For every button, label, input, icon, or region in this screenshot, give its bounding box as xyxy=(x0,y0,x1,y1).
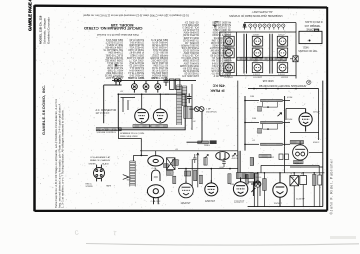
wire down from coil xyxy=(187,112,203,143)
cathode resistor bars under output tubes xyxy=(133,125,150,128)
resistor R7 with AVC loop at y=144.3 xyxy=(245,143,259,145)
terminal blocks upper xyxy=(170,79,175,89)
wire AC line down xyxy=(103,85,105,123)
PSU left rail xyxy=(253,173,255,207)
tube socket LAMP (layout view) xyxy=(252,63,262,73)
svg-text:10M: 10M xyxy=(250,96,254,98)
svg-text:MOD 11B: MOD 11B xyxy=(262,79,273,82)
B+ top line of PSU xyxy=(254,172,324,174)
speaker plug coil xyxy=(189,107,204,112)
svg-text:80-288 -.02 3: 80-288 -.02 3 xyxy=(153,51,168,54)
tube socket 50L6GT (layout view) xyxy=(224,48,234,58)
svg-text:1MEG: 1MEG xyxy=(255,177,261,179)
svg-text:10-2715 ELECT: 10-2715 ELECT xyxy=(105,41,123,44)
tube V4 12SQ7 first audio xyxy=(299,109,312,132)
output transformer T3 winding xyxy=(177,85,182,125)
svg-text:.05 .0001 23-: .05 .0001 23- xyxy=(184,21,199,24)
bias resistor vertical xyxy=(245,175,248,185)
svg-text:DIAL DRIVE: DIAL DRIVE xyxy=(306,28,319,31)
svg-text:12SQ7: 12SQ7 xyxy=(313,112,321,114)
svg-text:IF 456 KC ALIGN: IF 456 KC ALIGN xyxy=(305,20,323,23)
B- bottom bus xyxy=(248,206,323,208)
coupling network V3 xyxy=(241,177,260,196)
cathode resistor R2 xyxy=(173,176,176,183)
svg-text:250M: 250M xyxy=(287,119,292,121)
svg-text:PAPER 40-9395: PAPER 40-9395 xyxy=(150,56,168,59)
padder capacitor xyxy=(164,164,169,168)
tube V5 50L6GT output xyxy=(293,141,308,160)
parts list table, right block (rotated 180 small text) xyxy=(180,21,231,78)
schematic sheet border frame xyxy=(34,5,327,211)
tube V3 12SQ7GT detector-AVC xyxy=(233,179,247,196)
svg-text:UNDERSIDE VIEW FROM REAR OF CH: UNDERSIDE VIEW FROM REAR OF CHASSIS xyxy=(229,14,283,17)
svg-text:35Z5GT: 35Z5GT xyxy=(253,46,261,48)
svg-text:150 WVDC: 150 WVDC xyxy=(206,111,217,113)
tuning arrow xyxy=(278,113,282,117)
rectifier V6 35Z5GT xyxy=(273,173,287,207)
svg-text:456KC: 456KC xyxy=(313,142,320,144)
output tube V6 50L6GT xyxy=(153,109,167,123)
svg-text:1, X-1 at rectifiers, a-v-c ?: 1, X-1 at rectifiers, a-v-c ? Tuning ind… xyxy=(61,109,65,208)
wires around V4/V5 xyxy=(286,109,323,153)
svg-text:SHORTWAVE TRIM WITH KNOB POINT: SHORTWAVE TRIM WITH KNOB POINTER xyxy=(259,84,306,87)
svg-text:35Z5 MFD CARB: 35Z5 MFD CARB xyxy=(180,64,199,67)
IF transformer T2 leads xyxy=(238,151,240,173)
on-off switch resistor bar xyxy=(96,128,121,131)
svg-text:80-1704 79-34: 80-1704 79-34 xyxy=(151,66,168,69)
svg-text:RED &: RED & xyxy=(86,183,93,185)
output tube cathode bar xyxy=(294,161,304,164)
resistor R6 with AVC loop at y=122.5 xyxy=(245,122,259,124)
svg-text:ALL PARTS ASSY: ALL PARTS ASSY xyxy=(252,10,273,13)
svg-text:50L6GT: 50L6GT xyxy=(280,76,288,78)
filter electrolytic C15 xyxy=(290,176,299,186)
svg-text:150V 50M 50M: 150V 50M 50M xyxy=(106,71,123,74)
resistor R12 horizontal xyxy=(198,141,209,144)
screen resistor R3 xyxy=(185,171,191,176)
tube V1 12SA7GT converter (next to gang) xyxy=(179,181,194,198)
cathode resistor R5 xyxy=(199,175,202,183)
svg-text:37-5614 58-1: 37-5614 58-1 xyxy=(129,41,144,44)
svg-text:Gamblers,/Coronado: Gamblers,/Coronado xyxy=(46,17,50,44)
svg-text:Parts and values given R.C.A.: Parts and values given R.C.A. licensed xyxy=(97,33,139,36)
svg-text:12SQ7GT: 12SQ7GT xyxy=(234,201,245,203)
svg-text:100M 470M 400: 100M 470M 400 xyxy=(105,46,123,49)
AVC filter resistor vertical xyxy=(255,174,258,184)
AVC rail vertical xyxy=(244,96,246,151)
svg-text:85-9175 38-2: 85-9175 38-2 xyxy=(129,61,144,64)
tone switch box xyxy=(290,56,298,62)
cathode resistor R7 xyxy=(228,174,231,184)
stem E1 to plate wire xyxy=(155,151,157,156)
svg-text:STRIPE: STRIPE xyxy=(86,186,94,188)
svg-text:WVDC 12-1932: WVDC 12-1932 xyxy=(126,56,144,59)
svg-text:27-8448 50M .: 27-8448 50M . xyxy=(107,51,123,54)
svg-text:TAPE: TAPE xyxy=(106,185,112,188)
capacitor C20 line filter xyxy=(164,77,169,86)
scan artifact: right lower smudge xyxy=(330,236,356,239)
grid bus wire xyxy=(178,168,238,170)
svg-text:20-20 MF: 20-20 MF xyxy=(296,199,305,201)
junction dots on grid bus xyxy=(185,168,187,170)
tube base / plug diagram xyxy=(94,165,105,182)
grid resistor R6 xyxy=(204,158,207,166)
svg-text:IF PEAK: IF PEAK xyxy=(210,88,225,92)
filter choke winding xyxy=(182,86,187,106)
svg-text:50M: 50M xyxy=(252,118,256,120)
plate wire upper xyxy=(140,150,238,152)
wire amp box to gang bus xyxy=(119,128,142,156)
scan artifact: bottom page-edge line xyxy=(86,244,359,246)
pilot lamp PSU xyxy=(255,173,261,207)
surge resistor R14 vertical xyxy=(263,179,267,191)
inner right rail xyxy=(318,89,320,140)
output section right rail xyxy=(191,84,193,130)
svg-text:12SA7: 12SA7 xyxy=(225,33,232,36)
svg-text:1/2W 200V 470: 1/2W 200V 470 xyxy=(182,74,199,77)
tube stems xyxy=(186,169,241,184)
svg-text:©John F. Rider, Publisher: ©John F. Rider, Publisher xyxy=(329,158,333,214)
svg-text:12SA7GT: 12SA7GT xyxy=(181,202,192,205)
pilot lamp L2 xyxy=(143,81,149,93)
B+ distribution wire xyxy=(248,88,319,90)
tuning gang section C1B xyxy=(147,185,164,198)
svg-text:20M: 20M xyxy=(230,184,234,186)
svg-text:46-3550 1/2W 20: 46-3550 1/2W 20 xyxy=(212,21,231,24)
right boundary rail xyxy=(322,81,324,207)
tube socket 12SK7 (layout view) xyxy=(277,48,287,58)
junction dots PSU xyxy=(257,172,259,174)
svg-text:25M: 25M xyxy=(165,94,169,96)
chassis layout box xyxy=(220,23,296,79)
svg-text:58-2951 PAPER: 58-2951 PAPER xyxy=(181,43,199,46)
tube socket 35Z5GT (layout view) xyxy=(252,48,262,58)
svg-text:WIRE SIDE VIEW: WIRE SIDE VIEW xyxy=(120,136,139,138)
capacitor C3 xyxy=(193,154,197,163)
svg-text:117 V. 60 CY.: 117 V. 60 CY. xyxy=(96,112,111,115)
tube socket 12SQ7 (layout view) xyxy=(277,36,287,46)
avc arrow 2 xyxy=(232,153,235,156)
IF trimmer block 456KC xyxy=(210,140,217,144)
IF transformer T2 winding box xyxy=(237,173,254,179)
svg-text:GREEN: GREEN xyxy=(89,163,97,165)
svg-text:ON-OFF SWITCH ON: ON-OFF SWITCH ON xyxy=(97,129,118,131)
tube socket 12SA7 (layout view) xyxy=(224,36,234,46)
svg-text:54-9991 15-76: 54-9991 15-76 xyxy=(151,41,168,44)
svg-text:VOL 19-2542 3: VOL 19-2542 3 xyxy=(182,26,199,29)
svg-text:BLACK: BLACK xyxy=(102,162,109,165)
antenna bus wire xyxy=(134,154,148,156)
wire filament string top xyxy=(112,80,196,82)
svg-text:GAMBLE PAGE 4-7: GAMBLE PAGE 4-7 xyxy=(27,0,32,31)
svg-text:12SK7GT: 12SK7GT xyxy=(205,201,216,203)
svg-text:.01 15-5150 15-: .01 15-5150 15- xyxy=(214,26,231,29)
junction dots amp box xyxy=(141,93,143,95)
IF transformer T1 can top xyxy=(216,152,230,160)
svg-text:IF 8MF 69-87: IF 8MF 69-87 xyxy=(129,51,144,54)
svg-text:58-5463 51-56: 58-5463 51-56 xyxy=(182,69,199,72)
speaker field connection xyxy=(285,146,323,173)
svg-text:39-3752 34-66: 39-3752 34-66 xyxy=(182,33,199,36)
wires inside amplifier box xyxy=(121,94,161,112)
svg-text:50L6GT: 50L6GT xyxy=(225,46,233,48)
plate resistor R10 xyxy=(290,141,303,144)
svg-text:GAMBLE-SKOGMO, INC.: GAMBLE-SKOGMO, INC. xyxy=(41,84,46,135)
scattered component value labels xyxy=(120,91,320,186)
svg-text:2MEG: 2MEG xyxy=(204,145,210,147)
trimmer capacitor box xyxy=(167,158,176,170)
svg-text:90-1064 14-55: 90-1064 14-55 xyxy=(151,61,168,64)
svg-text:AC OUTLET: AC OUTLET xyxy=(113,76,125,79)
svg-text:40-5185 35-25: 40-5185 35-25 xyxy=(182,49,199,52)
field coil block xyxy=(184,106,192,118)
scan noise speckle xyxy=(36,8,327,210)
osc padder box xyxy=(166,170,173,175)
svg-text:50L6GT 75-14: 50L6GT 75-14 xyxy=(128,71,144,74)
svg-text:C-1B OSC: C-1B OSC xyxy=(151,201,161,203)
PSU verticals xyxy=(261,165,319,172)
B+ dropping resistor vertical xyxy=(250,158,253,166)
resistor R5 with AVC loop at y=100.5 xyxy=(245,100,259,102)
tube socket BALLAST (layout view) xyxy=(277,63,287,73)
svg-text:12SK7: 12SK7 xyxy=(253,34,260,36)
svg-text:.0001: .0001 xyxy=(219,167,225,169)
svg-text:12SK7GT: 12SK7GT xyxy=(252,76,262,78)
loop antenna winding xyxy=(130,161,135,187)
svg-text:35Z5GT: 35Z5GT xyxy=(274,203,283,205)
coupling horseshoe xyxy=(152,170,160,181)
svg-text:91-25 charged to 12K ohm CT450: 91-25 charged to 12K ohm CT450 class, B-… xyxy=(83,14,189,18)
gang frame lines xyxy=(154,198,159,205)
svg-text:PILOT: PILOT xyxy=(128,78,135,80)
svg-text:MOD.: MOD. xyxy=(302,45,308,47)
svg-text:12SK7: 12SK7 xyxy=(278,46,285,48)
AC plug symbol xyxy=(114,79,122,85)
model index text: MODEL 118 / Schematic / Gamblers,Coronado (vertical) xyxy=(38,15,50,44)
svg-text:470M: 470M xyxy=(287,97,292,99)
osc grid resistor R1 xyxy=(172,160,178,166)
line-cord resistor horizontal xyxy=(259,155,271,158)
svg-text:100M 400V 82-: 100M 400V 82- xyxy=(151,71,168,74)
electrolytic leads xyxy=(294,173,303,207)
junction dots on B+ wire xyxy=(253,88,255,90)
output tube V5 50L6GT xyxy=(135,109,149,123)
pilot lamp L1 xyxy=(132,81,138,93)
filter electrolytic C16 xyxy=(300,176,307,185)
parts list table, left block (rotated 180 small text) xyxy=(103,38,168,79)
svg-text:VOLUME CONTROL: VOLUME CONTROL xyxy=(97,132,117,134)
svg-text:VOL 25-7578 6: VOL 25-7578 6 xyxy=(182,54,199,57)
B- rail vertical xyxy=(237,81,239,151)
tuning gang section C1A xyxy=(148,156,164,166)
svg-text:50L6GT: 50L6GT xyxy=(225,61,233,63)
pilot lamp L3 xyxy=(155,81,161,93)
svg-text:BALLAST: BALLAST xyxy=(278,60,288,63)
speaker-amplifier box outline xyxy=(118,94,185,130)
svg-text:30-8937 50L6G: 30-8937 50L6G xyxy=(106,56,123,59)
right filter bars xyxy=(313,175,317,186)
dial escutcheon rectangle xyxy=(299,29,322,43)
dial cord shaft lines xyxy=(244,34,272,74)
grid return rail xyxy=(284,96,286,146)
svg-text:456 KC: 456 KC xyxy=(212,83,225,87)
dial lamp symbol xyxy=(243,24,247,30)
capacitor C9 xyxy=(222,158,226,167)
osc section rails xyxy=(192,153,198,187)
terminal strip circles row xyxy=(249,24,285,30)
capacitor C8 xyxy=(187,93,191,103)
svg-text:SPEAKER PLUG CONN.: SPEAKER PLUG CONN. xyxy=(120,132,145,135)
coupling caps above PSU xyxy=(279,154,283,160)
tube-function notes column (vertical small text) xyxy=(54,99,64,208)
svg-text:1ST IF: 1ST IF xyxy=(232,155,239,157)
svg-text:64-3106 41-1: 64-3106 41-1 xyxy=(129,66,144,69)
ground symbols left of layout xyxy=(213,22,218,28)
tube socket 12SK7 (layout view) xyxy=(252,36,262,46)
B+ mid line of PSU xyxy=(261,164,319,166)
tube socket 50L6GT (layout view) xyxy=(224,63,234,73)
svg-text:LAMP: LAMP xyxy=(253,60,259,63)
antenna arrow xyxy=(123,175,129,180)
svg-text:12SA7GT: 12SA7GT xyxy=(223,76,233,79)
avc arrow 1 xyxy=(205,154,208,157)
volume control R9 xyxy=(251,181,256,196)
dial drum hatched bar xyxy=(237,57,287,60)
svg-text:12SQ7: 12SQ7 xyxy=(278,34,285,36)
tube V2 12SK7GT IF amplifier xyxy=(205,180,218,196)
svg-text:1 MF: 1 MF xyxy=(206,108,212,110)
